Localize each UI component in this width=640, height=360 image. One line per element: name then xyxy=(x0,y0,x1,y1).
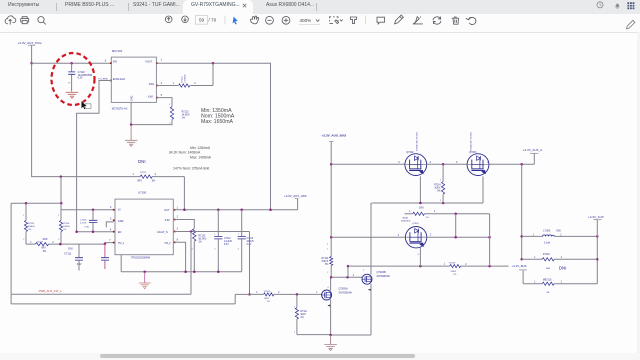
wire U7100 IN row xyxy=(61,209,113,211)
svg-text:DNI: DNI xyxy=(419,205,424,209)
svg-text:+3.3V_AUX_PCIe: +3.3V_AUX_PCIe xyxy=(18,41,42,45)
transistor Q7003A xyxy=(316,287,352,306)
IC MU7102 body xyxy=(111,57,156,102)
svg-text:R7119: R7119 xyxy=(449,263,456,265)
svg-text:1: 1 xyxy=(161,59,163,62)
svg-text:TM_2: TM_2 xyxy=(164,242,171,245)
capacitor C7112 0.1uF xyxy=(214,210,232,272)
node junction ground tap xyxy=(329,334,332,337)
svg-text:1: 1 xyxy=(238,234,239,236)
svg-text:100K/0: 100K/0 xyxy=(28,226,35,228)
wire DSG to R7124 to VOUT rail xyxy=(156,63,213,85)
svg-text:GND: GND xyxy=(118,220,124,223)
wire local ground rail under U7100 xyxy=(121,255,242,272)
wire Q7003A source down xyxy=(330,299,332,335)
svg-text:1: 1 xyxy=(256,292,258,294)
capacitor C7113 10uF xyxy=(238,210,255,272)
svg-text:DSG: DSG xyxy=(149,83,154,86)
svg-text:VIN: VIN xyxy=(113,61,117,64)
svg-text:1: 1 xyxy=(177,206,179,209)
svg-text:5%: 5% xyxy=(325,264,328,266)
svg-text:10K/X: 10K/X xyxy=(434,188,441,190)
svg-text:+3.3V_AUX_A: +3.3V_AUX_A xyxy=(523,148,542,152)
wire U7100 EN row xyxy=(77,231,114,233)
svg-text:+3.3V_AUX_LWF: +3.3V_AUX_LWF xyxy=(284,194,307,198)
svg-text:OUT: OUT xyxy=(164,209,170,212)
node junction Q7001 source xyxy=(419,265,422,268)
svg-text:C7118: C7118 xyxy=(80,220,87,222)
svg-text:DNI: DNI xyxy=(43,237,48,241)
transistor Q7001 xyxy=(401,221,427,248)
resistor R7115 100K xyxy=(24,203,35,244)
node junction BUS to Q7001 gate xyxy=(330,236,333,239)
svg-text:4.7u/X: 4.7u/X xyxy=(80,222,87,224)
wire MU7102 GND down xyxy=(130,102,132,124)
wire branch to pulldown rail xyxy=(60,177,62,204)
svg-text:1: 1 xyxy=(409,211,411,213)
svg-text:2: 2 xyxy=(327,272,328,274)
svg-text:EN/FLAG#: EN/FLAG# xyxy=(113,78,126,81)
wire Q7001 source down xyxy=(419,248,421,267)
svg-text:ILIM: ILIM xyxy=(165,219,170,222)
resistor R7118 xyxy=(522,254,598,270)
U7100 pin pads xyxy=(113,209,176,244)
svg-text:0RX: 0RX xyxy=(41,248,46,250)
resistor R7114 10K xyxy=(434,164,445,203)
wire ILIM to R7123 and to ground node xyxy=(131,98,172,125)
wire gate row to Q7003B xyxy=(331,276,362,278)
wire FAULT_N drop to box bottom xyxy=(190,232,192,295)
net +3.3V_AUX label xyxy=(588,215,604,236)
transistor Q7003 xyxy=(467,131,489,175)
node junction C7118 tap xyxy=(92,209,95,212)
node junction on +3.3V rail xyxy=(30,62,32,64)
svg-text:R7111: R7111 xyxy=(300,311,307,313)
svg-text:Q7002: Q7002 xyxy=(406,151,414,154)
resistor R7105 xyxy=(256,291,280,303)
node junction ground symbol tap xyxy=(143,270,146,273)
ground for U7100 rail xyxy=(144,272,146,283)
node junction Q7002 source xyxy=(419,202,422,205)
svg-text:+3.3V_BUS: +3.3V_BUS xyxy=(512,264,527,268)
node junction R7122 bottom xyxy=(330,276,333,279)
svg-text:8: 8 xyxy=(177,239,179,242)
svg-text:MU7102: MU7102 xyxy=(112,49,123,53)
svg-text:R7121: R7121 xyxy=(140,172,147,174)
inductor L7000 0.1uH DNI xyxy=(522,230,598,245)
svg-text:4: 4 xyxy=(161,82,163,85)
svg-text:VOUT: VOUT xyxy=(145,61,152,64)
svg-text:59: 59 xyxy=(199,18,205,23)
node junction BUS to FET rail xyxy=(330,163,333,166)
svg-text:2: 2 xyxy=(430,235,432,237)
node junction L7000 tap xyxy=(520,235,523,238)
svg-text:Min: 1284mA: Min: 1284mA xyxy=(190,146,211,150)
svg-text:5%: 5% xyxy=(437,191,440,193)
svg-text:5: 5 xyxy=(110,217,112,220)
svg-text:14.3K/5: 14.3K/5 xyxy=(182,115,191,117)
svg-text:6: 6 xyxy=(110,206,112,209)
svg-text:1: 1 xyxy=(173,83,175,85)
ground for C7119 xyxy=(66,92,79,98)
wire EN/FLAG# down-left long run xyxy=(77,81,112,232)
net +3.3V_AUX_BUS label xyxy=(322,134,347,142)
svg-text:C7112: C7112 xyxy=(224,238,231,240)
svg-text:+3.3V_AUX_BUS: +3.3V_AUX_BUS xyxy=(322,134,347,138)
net +3.3V_AUX_PCIe label xyxy=(18,41,42,45)
svg-text:R7123: R7123 xyxy=(182,112,189,114)
node junction at C7119 tap xyxy=(70,62,73,64)
node junction C7113 tap xyxy=(240,209,243,212)
svg-text:2: 2 xyxy=(58,239,59,241)
wire Q7001 gate row from BUS xyxy=(331,236,405,238)
MU7102 pin numbers xyxy=(105,59,163,97)
svg-text:400%: 400% xyxy=(300,18,312,23)
resistor R7123 14.3K xyxy=(170,107,190,120)
IC U7100 body xyxy=(115,199,173,255)
svg-text:R7120: R7120 xyxy=(198,236,205,238)
resistor R7121 0RX DNI xyxy=(132,159,156,183)
svg-text:5%: 5% xyxy=(63,229,66,231)
svg-text:MCT62TU-AX: MCT62TU-AX xyxy=(112,107,128,110)
node junction R7115 top xyxy=(25,202,28,205)
wire from +3.3V_AUX_PCIe label down xyxy=(31,45,33,63)
node junction R7118 tap xyxy=(520,258,523,261)
svg-text:C7111: C7111 xyxy=(64,253,72,256)
net +3.3V_AUX_A label xyxy=(523,148,542,164)
svg-text:1: 1 xyxy=(440,180,441,182)
node junction L7000 right xyxy=(596,235,599,238)
svg-text:R7114: R7114 xyxy=(434,185,441,187)
transistor Q7002 xyxy=(405,131,427,175)
svg-text:6.3V: 6.3V xyxy=(85,227,90,229)
net +3.3V_BUS label xyxy=(512,264,527,284)
svg-text:PWR_AUX_FLT_L: PWR_AUX_FLT_L xyxy=(39,289,63,293)
wire U7100 OUT rail xyxy=(175,209,298,211)
svg-text:100K/0: 100K/0 xyxy=(63,226,70,228)
node junction Q7003B drain loop xyxy=(346,276,349,279)
wire ILIM to R7120 to gnd rail xyxy=(175,220,195,272)
wire FAULT_N row xyxy=(175,231,250,233)
svg-text:C7113: C7113 xyxy=(247,238,254,240)
svg-text:1: 1 xyxy=(132,173,134,176)
svg-text:1: 1 xyxy=(192,230,193,232)
node junction MU7102 gnd xyxy=(130,123,133,126)
svg-text:6.3V: 6.3V xyxy=(77,264,82,266)
wire FET sources U loop xyxy=(372,176,484,203)
wire AUX_BUS vertical xyxy=(330,142,332,257)
svg-text:6.3V: 6.3V xyxy=(78,77,83,80)
node junction drain row mid xyxy=(454,236,457,239)
svg-text:0.1uH: 0.1uH xyxy=(544,242,550,244)
U7100 pin numbers xyxy=(109,206,178,242)
svg-text:+3.3V_AUX: +3.3V_AUX xyxy=(588,215,604,219)
wire Q7003B source down xyxy=(370,284,372,335)
svg-text:2: 2 xyxy=(192,249,193,251)
annotation red dashed ellipse xyxy=(52,53,95,105)
svg-text:1: 1 xyxy=(363,269,364,271)
pin ticks small xyxy=(23,82,441,334)
wire U7100 GND row xyxy=(106,222,113,228)
wire PWR_AUX_FLT_L long run xyxy=(11,294,263,304)
mouse cursor with selection box xyxy=(81,101,91,110)
FET pin numbers xyxy=(398,161,489,164)
svg-text:R7115: R7115 xyxy=(28,223,35,225)
net +3.3V_AUX_LWF label xyxy=(284,194,307,210)
node junction C7112 tap xyxy=(217,209,220,212)
resistor R7122 3.9K xyxy=(321,257,332,278)
node junction at R7116 branch xyxy=(60,175,63,178)
svg-text:5%: 5% xyxy=(28,229,31,231)
svg-text:1: 1 xyxy=(169,104,170,106)
svg-text:MB7110: MB7110 xyxy=(543,280,552,282)
capacitor C7110 xyxy=(101,244,109,269)
svg-text:1: 1 xyxy=(316,292,318,294)
svg-text:ILIM: ILIM xyxy=(148,96,153,99)
node junction AUX_A drop xyxy=(520,163,523,166)
wire TM_2 down to gnd rail xyxy=(175,242,186,271)
wire R7119 row stub down to gate row xyxy=(347,266,349,277)
svg-text:IN: IN xyxy=(118,209,121,212)
resistor R7116 100K xyxy=(59,203,70,244)
node junction R7114 bottom xyxy=(442,202,445,205)
capacitor C7118 4.7u xyxy=(80,210,97,232)
svg-text:3: 3 xyxy=(456,161,458,164)
node junction DNI row drop xyxy=(183,209,186,212)
node junction C7112 on gnd rail xyxy=(217,270,220,273)
svg-text:5%: 5% xyxy=(267,301,270,303)
node junction drain loop to R7119 row xyxy=(347,265,350,268)
svg-text:3: 3 xyxy=(398,161,400,164)
svg-text:5%: 5% xyxy=(453,274,456,276)
svg-text:10uF/6: 10uF/6 xyxy=(247,241,255,243)
annotation text current limits xyxy=(201,108,235,125)
svg-text:2: 2 xyxy=(278,292,280,294)
svg-text:L7000: L7000 xyxy=(543,230,551,233)
node junction VOUT drop xyxy=(269,209,272,212)
node junction R7119 row to jumper column xyxy=(488,265,491,268)
svg-text:1: 1 xyxy=(214,234,215,236)
svg-text:R7122: R7122 xyxy=(322,258,329,260)
wire FAULT_N second drop xyxy=(249,232,251,295)
resistor R7120 38.2K xyxy=(193,229,207,244)
svg-text:4: 4 xyxy=(327,287,328,289)
svg-text:U7100: U7100 xyxy=(138,190,147,194)
svg-text:2: 2 xyxy=(238,249,239,251)
resistor R7111 1M xyxy=(295,294,307,334)
wire bottom ground rail xyxy=(331,334,371,336)
ground bottom middle xyxy=(330,335,332,344)
svg-text:R7124: R7124 xyxy=(182,76,184,83)
node junction EN row xyxy=(75,230,78,233)
svg-text:2: 2 xyxy=(194,83,196,85)
resistor R7117 0RX DNI xyxy=(30,237,54,253)
node junction TM_2 on gnd rail xyxy=(184,270,187,273)
svg-text:2: 2 xyxy=(465,264,467,266)
node junction R7112 row branch xyxy=(454,213,457,216)
svg-text:Q7001: Q7001 xyxy=(412,223,419,225)
svg-text:DNI: DNI xyxy=(68,247,73,250)
ground for MU7102 xyxy=(130,125,132,141)
svg-text:3.9K/X: 3.9K/X xyxy=(321,261,328,263)
svg-text:1%: 1% xyxy=(182,118,185,120)
svg-text:3: 3 xyxy=(398,235,400,237)
svg-text:0.1uF/6: 0.1uF/6 xyxy=(224,241,233,243)
svg-text:Q7003B: Q7003B xyxy=(377,271,387,274)
svg-text:4: 4 xyxy=(418,254,419,256)
wire Q7003B drain riser from source loop xyxy=(370,203,372,275)
svg-text:DNI: DNI xyxy=(138,159,146,164)
svg-text:DNI: DNI xyxy=(557,230,562,233)
svg-text:R7116: R7116 xyxy=(63,223,70,225)
svg-text:2: 2 xyxy=(169,123,170,125)
wire R7111 bottom to ground rail xyxy=(297,334,331,336)
node junction R7118 right xyxy=(596,258,599,261)
svg-text:SI2305DS: SI2305DS xyxy=(401,221,411,223)
wire Q7003A drain up xyxy=(330,277,332,290)
svg-text:4: 4 xyxy=(110,229,112,232)
svg-text:2: 2 xyxy=(23,239,24,241)
svg-text:5: 5 xyxy=(161,94,163,97)
wire +3.3V rail to MU7102 VIN xyxy=(32,62,112,64)
node junction VOUT/R7124 xyxy=(212,62,215,64)
wire pulldown top rail xyxy=(11,202,61,204)
svg-text:38.2K/0: 38.2K/0 xyxy=(198,239,207,241)
svg-text:R7105: R7105 xyxy=(264,291,271,293)
wire branch down to Q7001 drain row xyxy=(455,214,457,238)
wire +3.3V rail down left side and DNI row to OUT rail xyxy=(32,63,185,210)
svg-text:0RX: 0RX xyxy=(137,181,142,183)
wire VOUT rail and drop to OUT rail xyxy=(156,63,270,210)
svg-text:GND: GND xyxy=(131,95,134,101)
svg-text:Pc: Pc xyxy=(68,82,70,84)
svg-text:SI2301CDS-T1-GE3: SI2301CDS-T1-GE3 xyxy=(417,131,419,151)
wire R7119 row xyxy=(348,265,509,267)
svg-text:2.2/0402: 2.2/0402 xyxy=(185,74,187,83)
svg-text:2: 2 xyxy=(155,173,157,176)
svg-text:3: 3 xyxy=(177,228,179,231)
resistor R7119 0R0X xyxy=(444,263,468,277)
svg-text:2N7002DWA: 2N7002DWA xyxy=(377,275,391,278)
svg-text:1: 1 xyxy=(444,264,446,266)
svg-text:R7118: R7118 xyxy=(543,254,550,256)
svg-text:FAULT_N: FAULT_N xyxy=(157,231,168,234)
svg-text:2: 2 xyxy=(430,161,432,164)
resistor R7112 0R DNI xyxy=(402,205,436,219)
wire R7112 row xyxy=(405,213,490,215)
svg-text:5%: 5% xyxy=(426,217,429,219)
annotation small text block xyxy=(169,146,212,171)
capacitor C7119 10u 6.3V xyxy=(68,63,92,91)
wire jumper column right xyxy=(489,214,491,266)
svg-text:2: 2 xyxy=(214,249,215,251)
svg-text:6.3V: 6.3V xyxy=(224,244,229,246)
svg-text:5: 5 xyxy=(327,243,328,245)
resistor R7124 2.2 xyxy=(173,74,197,88)
svg-text:1: 1 xyxy=(294,306,295,308)
svg-text:147% Nom: 375mA limit: 147% Nom: 375mA limit xyxy=(173,167,209,171)
svg-text:7: 7 xyxy=(109,239,111,242)
transistor Q7003B xyxy=(362,271,390,291)
node junction R7116 bottom xyxy=(59,243,62,246)
svg-text:5%: 5% xyxy=(152,181,155,183)
svg-text:2: 2 xyxy=(177,216,179,219)
svg-text:1%: 1% xyxy=(198,242,201,244)
wire Q7001 drain row xyxy=(427,236,490,238)
node junction C7118 bottom xyxy=(92,230,95,233)
wire FET source rail xyxy=(331,163,534,165)
svg-text:/ 70: / 70 xyxy=(209,18,217,23)
node junction R7114 tap xyxy=(442,163,445,166)
svg-text:R7117: R7117 xyxy=(37,241,44,243)
node junction TM_1 branch xyxy=(104,243,107,246)
svg-text:2N7002DWA: 2N7002DWA xyxy=(339,291,353,294)
wire right vertical to rows xyxy=(596,236,598,283)
node junction R7120 on gnd rail xyxy=(193,270,196,273)
svg-text:2: 2 xyxy=(294,332,295,334)
node junction drain row right xyxy=(488,236,491,239)
svg-text:2: 2 xyxy=(440,200,441,202)
node junction at R7105 row xyxy=(248,293,251,296)
svg-text:1: 1 xyxy=(327,248,328,250)
node junction R7116 top xyxy=(60,202,63,205)
svg-text:2: 2 xyxy=(434,211,436,213)
wire R7117 row to U7100 TM_1 xyxy=(26,243,114,245)
svg-text:1%: 1% xyxy=(300,317,303,319)
svg-text:0R0: 0R0 xyxy=(546,268,551,270)
U7100 pin names xyxy=(118,209,171,260)
svg-text:1: 1 xyxy=(23,215,24,217)
svg-text:6: 6 xyxy=(105,59,107,62)
node junction FAULT_N branch xyxy=(190,230,193,233)
svg-text:5%: 5% xyxy=(43,251,46,253)
svg-text:1M/X: 1M/X xyxy=(300,314,306,316)
svg-text:1: 1 xyxy=(58,215,59,217)
MU7102 pin names xyxy=(112,61,155,111)
svg-text:0R: 0R xyxy=(547,292,550,294)
svg-text:0R/X: 0R/X xyxy=(264,298,269,300)
node junction R7111 tap xyxy=(296,293,299,296)
svg-text:EN: EN xyxy=(118,231,122,234)
svg-text:34.2K Nom: 1408mA: 34.2K Nom: 1408mA xyxy=(169,151,201,155)
svg-text:TM_1: TM_1 xyxy=(118,242,125,245)
svg-text:SI2301CDS-T1-GE3: SI2301CDS-T1-GE3 xyxy=(470,131,472,151)
MU7102 pin pads xyxy=(110,62,158,98)
svg-text:DNI: DNI xyxy=(559,266,567,271)
svg-text:0R(N): 0R(N) xyxy=(402,218,408,220)
capacitor C7111 DNI xyxy=(64,244,83,270)
svg-text:Max: 1498mA: Max: 1498mA xyxy=(190,155,212,159)
wire R7105 to Q7003A gate xyxy=(274,293,322,295)
wire left enclosure and bottom rail xyxy=(11,203,191,294)
svg-text:0R0X: 0R0X xyxy=(451,271,457,273)
svg-text:TPS2022DGNRM: TPS2022DGNRM xyxy=(131,257,150,260)
wire AUX_A vertical xyxy=(521,164,523,259)
resistor MB7110 0R xyxy=(523,280,597,295)
svg-text:Max: 1650mA: Max: 1650mA xyxy=(201,119,234,125)
svg-text:Q7003A: Q7003A xyxy=(339,287,349,290)
